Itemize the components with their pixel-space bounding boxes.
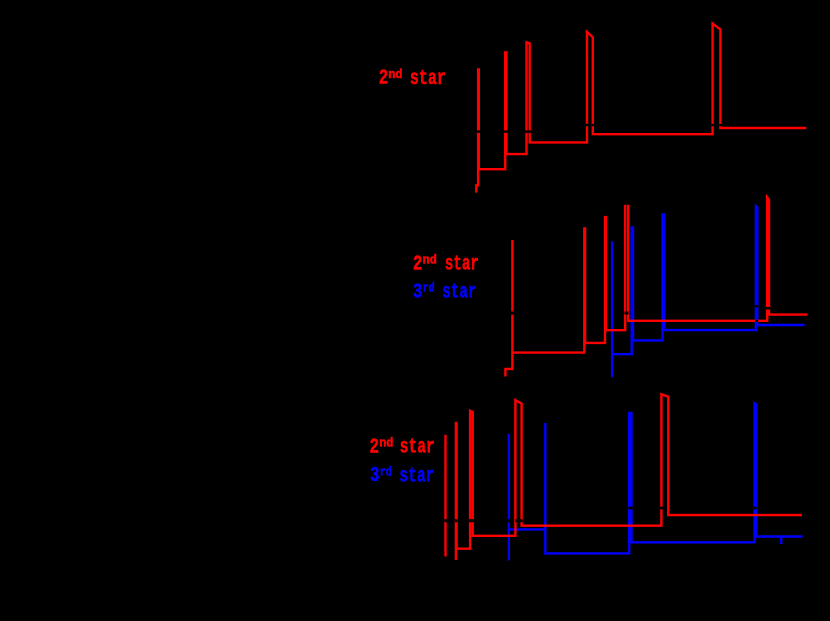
panel 3: red curve (2nd star): [446, 394, 803, 560]
svg-text:2: 2: [413, 253, 423, 276]
panel 1 label: 2nd star (red): [379, 67, 446, 91]
panel 2: blue curve (3rd star): [612, 206, 804, 377]
svg-text:star: star: [410, 68, 446, 91]
svg-text:3: 3: [370, 465, 380, 488]
svg-text:2: 2: [379, 68, 389, 91]
panel 2 label: 3rd star (blue): [413, 281, 477, 305]
panel 1: red curve (2nd star), semi-major-axis steps: [476, 24, 806, 193]
panel 3 label: 2nd star (red): [370, 436, 435, 460]
panel 1: black dashed-line notches over red spikes: [477, 124, 722, 133]
svg-text:star: star: [399, 465, 434, 488]
svg-text:rd: rd: [423, 281, 435, 296]
panel 2: red curve (2nd star): [505, 197, 807, 376]
svg-text:nd: nd: [379, 436, 393, 451]
svg-text:nd: nd: [423, 252, 437, 267]
panel 2: black dashed-line notches: [511, 305, 770, 322]
svg-text:star: star: [442, 282, 476, 305]
svg-text:rd: rd: [380, 464, 392, 479]
panel 3 label: 3rd star (blue): [370, 464, 434, 488]
svg-text:nd: nd: [388, 67, 402, 82]
svg-text:3: 3: [413, 282, 423, 305]
svg-text:2: 2: [370, 436, 380, 459]
svg-text:star: star: [400, 437, 435, 460]
panel 2 label: 2nd star (red): [413, 252, 479, 276]
panel 3: black dashed-line notches: [444, 507, 756, 523]
svg-text:star: star: [445, 254, 479, 277]
panel 3: blue curve (3rd star): [509, 403, 803, 560]
